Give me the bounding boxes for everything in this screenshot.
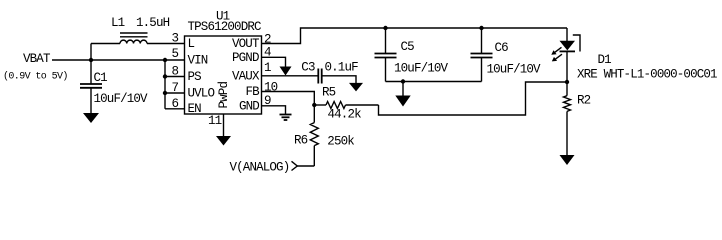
- ground arrow bus: [395, 96, 410, 107]
- svg-text:(0.9V to 5V): (0.9V to 5V): [3, 71, 68, 83]
- node junction VIN: [163, 58, 167, 62]
- svg-text:C5: C5: [401, 40, 415, 54]
- node junction UVLO: [163, 91, 167, 95]
- pin 6 EN: [172, 97, 202, 116]
- svg-text:44.2k: 44.2k: [328, 108, 362, 122]
- svg-text:VOUT: VOUT: [232, 37, 260, 51]
- node junction FB/R5/R6: [312, 103, 316, 107]
- wire top bus to LED anode: [566, 28, 568, 41]
- wire VAUX to C3: [262, 75, 319, 77]
- svg-text:1: 1: [264, 61, 271, 75]
- svg-text:11: 11: [208, 114, 222, 128]
- svg-text:R6: R6: [294, 134, 308, 148]
- capacitor C6: [471, 28, 542, 82]
- pin 1 VAUX: [232, 61, 271, 84]
- ground arrow R2: [560, 155, 575, 165]
- ground earth GND pin9: [280, 115, 292, 121]
- svg-text:C6: C6: [495, 41, 509, 55]
- svg-text:C3: C3: [301, 61, 315, 75]
- wire FB down: [262, 92, 315, 106]
- svg-text:V(ANALOG): V(ANALOG): [230, 161, 290, 175]
- LED emission arrow 1: [551, 47, 561, 54]
- diode D1 LED: [560, 35, 718, 82]
- wire PGND to ground: [262, 57, 286, 67]
- svg-text:250k: 250k: [327, 135, 354, 149]
- wire bus to ground: [402, 82, 404, 97]
- svg-text:UVLO: UVLO: [188, 87, 215, 101]
- svg-text:PwPd: PwPd: [217, 82, 231, 109]
- svg-text:L: L: [188, 37, 195, 51]
- node junction bus ground: [401, 79, 405, 83]
- svg-text:R2: R2: [577, 94, 591, 108]
- svg-text:L1: L1: [111, 16, 125, 30]
- svg-text:10uF/10V: 10uF/10V: [394, 62, 449, 76]
- wire VBAT to VIN: [52, 59, 185, 61]
- wire VOUT to top bus: [262, 28, 568, 44]
- node junction FB sense: [565, 80, 569, 84]
- svg-text:0.1uF: 0.1uF: [325, 61, 359, 75]
- svg-text:3: 3: [172, 32, 179, 46]
- resistor R2: [564, 94, 591, 156]
- svg-text:VBAT: VBAT: [23, 52, 51, 66]
- node VBAT label: [3, 52, 68, 83]
- wire up to inductor: [90, 44, 92, 61]
- node junction C6 top: [479, 26, 483, 30]
- svg-text:7: 7: [172, 81, 179, 95]
- resistor R6 250k: [294, 105, 354, 166]
- wire pin11 to ground: [223, 114, 225, 137]
- svg-text:TPS61200DRC: TPS61200DRC: [188, 20, 262, 34]
- wire FB sense line to LED cathode: [379, 82, 568, 115]
- svg-text:10uF/10V: 10uF/10V: [487, 63, 542, 77]
- pin 3 L: [172, 32, 195, 52]
- inductor L1: [91, 16, 185, 44]
- capacitor C3: [301, 61, 358, 84]
- svg-text:10uF/10V: 10uF/10V: [94, 92, 149, 106]
- svg-text:GND: GND: [239, 100, 259, 114]
- wire LED cathode to R2: [566, 51, 568, 95]
- ground arrow C1: [83, 113, 99, 123]
- pin 4 PGND: [232, 46, 271, 66]
- pin 8 PS: [172, 65, 202, 85]
- pin 2 VOUT: [232, 33, 271, 52]
- svg-text:2: 2: [264, 33, 271, 47]
- pin 7 UVLO: [172, 81, 215, 101]
- ground arrow pin11: [216, 136, 231, 146]
- capacitor C1: [80, 60, 148, 113]
- node V(ANALOG) input: [230, 161, 315, 175]
- svg-text:8: 8: [172, 65, 179, 79]
- pin 11 PwPd: [208, 82, 231, 128]
- pin 10 FB: [246, 81, 278, 100]
- ground arrow PGND: [280, 67, 292, 76]
- svg-text:VAUX: VAUX: [232, 70, 260, 84]
- node junction C5 top: [383, 26, 387, 30]
- svg-text:D1: D1: [598, 53, 612, 67]
- pin 5 VIN: [172, 47, 208, 67]
- resistor R5 44.2k: [314, 86, 378, 122]
- svg-text:EN: EN: [188, 102, 202, 116]
- node junction VBAT/C1/L1: [89, 58, 93, 62]
- capacitor C5: [375, 28, 449, 82]
- svg-text:XRE WHT-L1-0000-00C01: XRE WHT-L1-0000-00C01: [577, 68, 717, 82]
- node junction PS: [163, 74, 167, 78]
- svg-text:10: 10: [264, 81, 278, 95]
- svg-text:FB: FB: [246, 85, 261, 99]
- wire input bus VIN/PS/UVLO/EN: [165, 60, 185, 109]
- svg-text:VIN: VIN: [188, 54, 208, 68]
- svg-text:5: 5: [172, 47, 179, 61]
- op-amp U1 TPS61200DRC body: [185, 10, 262, 115]
- LED emission arrow 2: [552, 54, 562, 61]
- svg-text:1.5uH: 1.5uH: [136, 16, 170, 30]
- wire ground bus C5-C6: [386, 81, 482, 83]
- pin 9 GND: [239, 94, 271, 114]
- wire GND pin to earth: [262, 106, 286, 115]
- ground arrow C3: [349, 83, 363, 92]
- svg-text:PGND: PGND: [232, 51, 259, 65]
- svg-text:R5: R5: [322, 86, 336, 100]
- svg-text:6: 6: [172, 97, 179, 111]
- wire C3 to ground: [322, 76, 356, 84]
- svg-text:C1: C1: [94, 71, 108, 85]
- svg-text:PS: PS: [188, 70, 202, 84]
